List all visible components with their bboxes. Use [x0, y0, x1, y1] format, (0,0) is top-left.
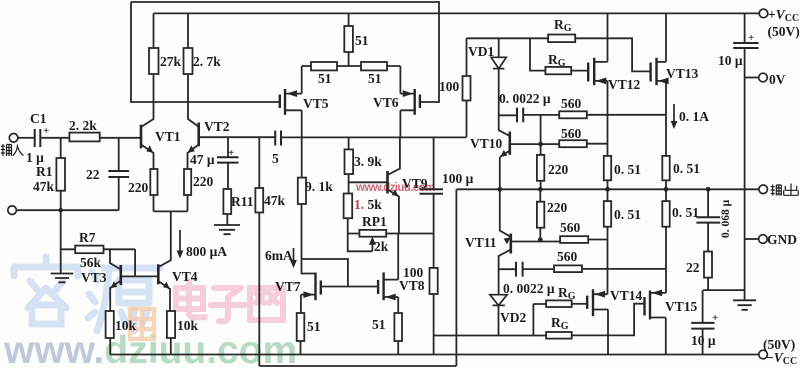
- svg-text:10k: 10k: [115, 318, 137, 333]
- svg-text:VT10: VT10: [470, 136, 503, 151]
- svg-text:220: 220: [548, 162, 569, 177]
- svg-text:RG: RG: [551, 315, 569, 332]
- svg-text:www.dziuu.com: www.dziuu.com: [3, 329, 297, 369]
- svg-text:22: 22: [686, 260, 700, 275]
- svg-text:VT2: VT2: [204, 119, 230, 134]
- svg-text:2. 2k: 2. 2k: [69, 118, 97, 133]
- svg-text:1. 5k: 1. 5k: [354, 197, 382, 212]
- svg-text:0. 0022 μ: 0. 0022 μ: [499, 91, 551, 106]
- svg-text:560: 560: [561, 96, 582, 111]
- svg-text:10 μ: 10 μ: [691, 333, 716, 348]
- svg-text:(50V): (50V): [768, 24, 800, 39]
- svg-text:0. 51: 0. 51: [673, 161, 700, 176]
- svg-text:51: 51: [318, 71, 332, 86]
- svg-text:R7: R7: [79, 230, 96, 245]
- svg-text:47 μ: 47 μ: [190, 152, 215, 167]
- svg-text:C1: C1: [30, 111, 47, 126]
- svg-text:560: 560: [561, 126, 582, 141]
- svg-text:51: 51: [368, 71, 382, 86]
- svg-text:47k: 47k: [264, 193, 286, 208]
- svg-text:100: 100: [439, 79, 460, 94]
- svg-text:0. 51: 0. 51: [614, 162, 641, 177]
- svg-text:0. 1A: 0. 1A: [679, 109, 709, 124]
- svg-text:10k: 10k: [177, 318, 199, 333]
- svg-text:VT8: VT8: [399, 278, 425, 293]
- svg-text:6mA: 6mA: [265, 248, 293, 263]
- svg-text:560: 560: [557, 249, 578, 264]
- svg-text:27k: 27k: [160, 54, 182, 69]
- svg-text:+: +: [43, 125, 49, 137]
- svg-text:VT11: VT11: [465, 235, 497, 250]
- svg-text:2. 7k: 2. 7k: [193, 54, 221, 69]
- svg-text:VT3: VT3: [81, 270, 107, 285]
- svg-text:RG: RG: [548, 52, 566, 69]
- svg-text:+: +: [228, 147, 234, 159]
- svg-text:+VCC: +VCC: [768, 7, 799, 24]
- svg-text:51: 51: [355, 33, 369, 48]
- svg-text:VT7: VT7: [275, 279, 301, 294]
- svg-text:56k: 56k: [80, 255, 102, 270]
- svg-text:3. 9k: 3. 9k: [354, 154, 382, 169]
- svg-text:VT4: VT4: [172, 269, 198, 284]
- svg-text:VT6: VT6: [373, 95, 399, 110]
- svg-text:10 μ: 10 μ: [718, 53, 743, 68]
- svg-text:GND: GND: [767, 232, 797, 247]
- svg-text:220: 220: [547, 200, 568, 215]
- svg-text:+: +: [748, 32, 754, 44]
- svg-text:VD2: VD2: [500, 310, 526, 325]
- svg-text:VT9: VT9: [402, 176, 428, 191]
- svg-text:5: 5: [272, 151, 279, 166]
- svg-text:R1: R1: [36, 164, 53, 179]
- svg-text:VD1: VD1: [468, 44, 494, 59]
- svg-text:−VCC: −VCC: [766, 350, 797, 367]
- svg-text:1 μ: 1 μ: [26, 150, 44, 165]
- svg-text:560: 560: [560, 220, 581, 235]
- svg-text:100: 100: [403, 265, 424, 280]
- svg-text:RG: RG: [554, 17, 572, 34]
- svg-text:VT12: VT12: [608, 77, 641, 92]
- svg-text:0. 51: 0. 51: [672, 205, 699, 220]
- svg-text:R11: R11: [231, 194, 254, 209]
- svg-text:220: 220: [193, 174, 214, 189]
- svg-text:VT15: VT15: [665, 299, 698, 314]
- svg-text:51: 51: [372, 317, 386, 332]
- svg-text:0. 068 μ: 0. 068 μ: [720, 199, 732, 238]
- svg-text:51: 51: [307, 319, 321, 334]
- svg-text:22: 22: [86, 167, 100, 182]
- svg-text:47k: 47k: [33, 179, 55, 194]
- svg-text:220: 220: [128, 180, 149, 195]
- svg-text:VT5: VT5: [303, 96, 329, 111]
- svg-text:VT14: VT14: [610, 288, 643, 303]
- svg-text:0. 51: 0. 51: [614, 207, 641, 222]
- svg-text:100 μ: 100 μ: [442, 171, 474, 186]
- svg-text:VT13: VT13: [666, 66, 699, 81]
- svg-text:RG: RG: [558, 285, 576, 302]
- svg-text:9. 1k: 9. 1k: [305, 179, 333, 194]
- svg-text:0V: 0V: [769, 72, 786, 87]
- svg-text:800 μA: 800 μA: [186, 244, 227, 259]
- svg-text:2k: 2k: [374, 239, 389, 254]
- svg-text:RP1: RP1: [362, 214, 387, 229]
- svg-text:+: +: [712, 312, 718, 324]
- svg-text:0. 0022 μ: 0. 0022 μ: [503, 281, 555, 296]
- svg-text:VT1: VT1: [155, 129, 181, 144]
